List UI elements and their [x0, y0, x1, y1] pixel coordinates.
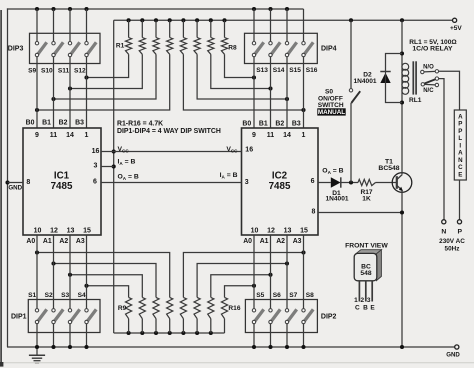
- svg-text:230V AC: 230V AC: [439, 238, 465, 245]
- resistor R9 (4.7K) with leads: [87, 286, 132, 333]
- svg-text:S10: S10: [41, 68, 53, 75]
- switch S9 (DIP3): [35, 42, 46, 57]
- svg-text:3: 3: [93, 163, 97, 170]
- terminal P (230V AC): [457, 220, 461, 224]
- svg-text:SWITCH: SWITCH: [318, 102, 344, 109]
- resistor R12 (4.7K) with leads: [37, 253, 173, 334]
- svg-text:B0: B0: [242, 121, 251, 128]
- resistor R15 (4.7K) with leads: [208, 275, 271, 333]
- svg-text:14: 14: [283, 132, 291, 139]
- svg-text:MANUAL: MANUAL: [318, 109, 345, 116]
- ground symbol (earth, bottom left): [29, 347, 45, 363]
- resistor R10 (4.7K) with leads: [70, 275, 145, 333]
- relay N/O contact: [421, 70, 439, 74]
- wire: IC1 pin3 IA=B tie to +5V: [101, 166, 114, 168]
- svg-text:IC2: IC2: [272, 171, 288, 182]
- svg-text:6: 6: [311, 178, 315, 185]
- switch S0 lever: [351, 91, 360, 103]
- svg-text:A: A: [458, 113, 463, 120]
- svg-text:2: 2: [360, 297, 364, 304]
- svg-text:15: 15: [300, 228, 308, 235]
- wire: IC1 A1 to S2: [53, 235, 55, 309]
- resistor R2 (4.7K) with leads: [70, 20, 145, 88]
- svg-text:7485: 7485: [269, 181, 291, 192]
- svg-text:E: E: [370, 305, 375, 312]
- switch S16 (DIP4): [302, 42, 313, 57]
- junction: R12 to IC1 A0 wire: [35, 250, 39, 254]
- svg-text:B: B: [363, 305, 368, 312]
- junction: S0 branch on +5V rail: [349, 18, 353, 22]
- svg-text:E: E: [458, 171, 462, 178]
- wire: IC2 pin6 output to D1: [318, 182, 331, 184]
- wire: GND bus top rail: [7, 8, 304, 10]
- wire: +5V vertical feed to Vcc and bottom resistor bus: [113, 20, 115, 333]
- wire: appliance to P terminal: [459, 180, 461, 220]
- junction: R3 top to +5V rail: [154, 18, 158, 22]
- svg-text:R9: R9: [118, 305, 127, 312]
- resistor R7 (4.7K) with leads: [208, 20, 271, 88]
- wire: S7 to GND rail: [286, 324, 288, 347]
- pin names C B E (package): [355, 305, 375, 312]
- relay armature: [423, 79, 435, 84]
- wire: Vcc line IC1 pin16 to IC2 pin16: [101, 151, 242, 153]
- svg-text:S3: S3: [61, 292, 69, 299]
- svg-text:DIP1-DIP4 = 4 WAY DIP SWITCH: DIP1-DIP4 = 4 WAY DIP SWITCH: [117, 128, 221, 135]
- svg-text:S9: S9: [28, 68, 36, 75]
- svg-text:S5: S5: [256, 292, 264, 299]
- svg-text:A3: A3: [76, 238, 85, 245]
- op IC2 7485 (box): [242, 128, 319, 235]
- resistor R5 (4.7K) with leads: [180, 20, 303, 110]
- wire: IC1 A3 to S4: [86, 235, 88, 309]
- switch S10 (DIP3): [52, 42, 63, 57]
- svg-text:9: 9: [35, 132, 39, 139]
- junction: R6 top to +5V rail: [195, 18, 199, 22]
- svg-text:B0: B0: [26, 120, 35, 127]
- svg-text:S15: S15: [289, 67, 301, 74]
- junction: DIP3 S12 to GND rail: [84, 7, 88, 11]
- svg-text:6: 6: [93, 179, 97, 186]
- svg-text:C: C: [458, 164, 463, 171]
- junction: S6 at GND rail: [268, 345, 272, 349]
- DIP switch block DIP4 (box): [245, 33, 318, 63]
- wire: cascade OA=B IC1 pin6 to IC2 pin3: [101, 182, 242, 184]
- svg-text:3: 3: [367, 297, 371, 304]
- svg-text:P: P: [458, 121, 462, 128]
- wire: S13 to IC2 B0: [253, 57, 255, 128]
- svg-text:50Hz: 50Hz: [445, 245, 460, 252]
- switch S4 (DIP1): [85, 309, 96, 324]
- label MANUAL (S0): [317, 108, 345, 116]
- svg-text:1N4001: 1N4001: [353, 78, 376, 85]
- junction: R15 bottom to +5V bus: [209, 331, 213, 335]
- switch S12 (DIP3): [85, 42, 96, 57]
- wire: T1 emitter down to GND rail: [401, 191, 403, 347]
- switch S15 (DIP4): [285, 42, 296, 57]
- wire: S8 to GND rail: [303, 324, 305, 347]
- svg-text:1: 1: [302, 132, 306, 139]
- svg-text:R1-R16 = 4.7K: R1-R16 = 4.7K: [117, 120, 163, 127]
- svg-text:10: 10: [34, 228, 42, 235]
- svg-text:A3: A3: [293, 238, 302, 245]
- op IC1 7485 (box): [23, 128, 101, 235]
- svg-text:R8: R8: [228, 45, 237, 52]
- wire: S10 to IC1 B1: [53, 57, 55, 128]
- svg-text:S13: S13: [256, 67, 268, 74]
- junction: DIP4 S13 to GND rail: [252, 7, 256, 11]
- wire: +5V rail (top): [114, 19, 455, 21]
- wire: S0 to output line: [350, 103, 352, 183]
- wire: S11 top (GND rail to switch): [69, 9, 71, 42]
- pin numbers 1 2 3 (package): [354, 297, 371, 304]
- svg-text:P: P: [458, 228, 463, 235]
- appliance box: [454, 110, 466, 180]
- svg-text:8: 8: [26, 179, 30, 186]
- junction: S4 at GND rail: [84, 345, 88, 349]
- svg-text:S11: S11: [58, 68, 70, 75]
- svg-text:L: L: [458, 135, 462, 142]
- scan edge bottom: [0, 362, 474, 364]
- wire: S4 to GND rail: [86, 324, 88, 347]
- svg-text:DIP4: DIP4: [321, 45, 337, 52]
- relay N/C contact: [421, 83, 439, 87]
- switch S7 (DIP2): [285, 309, 296, 324]
- wire: +5V bottom resistor bus: [114, 332, 225, 334]
- wire: S15 to IC2 B2: [286, 57, 288, 128]
- junction: +5V feed at IA=B line: [112, 164, 116, 168]
- junction: R16 to IC2 A0 wire: [252, 284, 256, 288]
- wire: S12 top (GND rail to switch): [86, 9, 88, 42]
- relay RL1 core: [413, 61, 416, 94]
- svg-text:A0: A0: [26, 238, 35, 245]
- junction: R8 to S13 wire: [252, 75, 256, 79]
- junction: S1 at GND rail: [35, 345, 39, 349]
- svg-text:S6: S6: [273, 292, 281, 299]
- svg-text:A2: A2: [59, 238, 68, 245]
- wire: IC2 A1 to S6: [270, 235, 272, 309]
- switch S6 (DIP2): [269, 309, 280, 324]
- svg-text:DIP3: DIP3: [8, 45, 24, 52]
- svg-text:S1: S1: [28, 292, 36, 299]
- junction: R9 to IC1 A3 wire: [84, 284, 88, 288]
- svg-text:GND: GND: [8, 184, 22, 191]
- DIP switch block DIP2 (box): [245, 300, 317, 333]
- diode D1 1N4001: [331, 177, 341, 187]
- svg-text:1K: 1K: [362, 195, 371, 202]
- svg-text:15: 15: [83, 228, 91, 235]
- svg-text:11: 11: [267, 132, 275, 139]
- svg-text:13: 13: [67, 228, 75, 235]
- wire: D2 branch: [386, 54, 403, 72]
- svg-text:9: 9: [252, 132, 256, 139]
- svg-text:N/C: N/C: [423, 88, 434, 94]
- wire: S14 to IC2 B1: [270, 57, 272, 128]
- svg-text:C: C: [355, 305, 360, 312]
- junction: S0 to output line: [349, 180, 353, 184]
- svg-text:16: 16: [92, 148, 100, 155]
- junction: R1 to S12 wire: [84, 75, 88, 79]
- junction: S3 at GND rail: [68, 345, 72, 349]
- svg-text:7485: 7485: [51, 181, 73, 192]
- wire: relay pole to N terminal: [439, 79, 444, 220]
- junction: S8 at GND rail: [301, 345, 305, 349]
- wire: S14 top (GND rail to switch): [270, 9, 272, 42]
- svg-text:S8: S8: [306, 292, 314, 299]
- transistor T1 BC548: [392, 173, 412, 193]
- wire: S3 to GND rail: [69, 324, 71, 347]
- DIP switch block DIP3 (box): [30, 33, 101, 63]
- wire: +5V rail to relay/D2: [401, 20, 403, 53]
- switch S13 (DIP4): [252, 42, 263, 57]
- svg-text:1: 1: [354, 297, 358, 304]
- wire: S5 to GND rail: [253, 324, 255, 347]
- svg-text:FRONT VIEW: FRONT VIEW: [345, 242, 388, 249]
- svg-text:I: I: [459, 142, 461, 149]
- resistor R8 (4.7K) with leads: [221, 20, 254, 77]
- svg-text:RL1: RL1: [409, 97, 422, 104]
- svg-text:DIP2: DIP2: [321, 313, 337, 320]
- junction: R11 bottom to +5V bus: [154, 331, 158, 335]
- svg-text:A0: A0: [243, 238, 252, 245]
- wire: GND bus left vertical: [7, 8, 9, 347]
- wire: R17 to T1 base: [376, 182, 397, 184]
- BC548 leg 2 (B): [365, 281, 367, 302]
- svg-text:R1: R1: [116, 42, 125, 49]
- wire: S12 to IC1 B3: [86, 57, 88, 128]
- junction: R10 to IC1 A2 wire: [68, 273, 72, 277]
- wire: IC2 pin8 to emitter: [318, 212, 402, 214]
- svg-text:P: P: [458, 128, 462, 135]
- wire: S11 to IC1 B2: [69, 57, 71, 128]
- diode D2 1N4001 (flyback): [380, 72, 390, 84]
- svg-text:10: 10: [251, 228, 259, 235]
- junction: R4 to S9 wire: [35, 108, 39, 112]
- junction: R7 to S14 wire: [268, 86, 272, 90]
- svg-text:12: 12: [267, 228, 275, 235]
- junction: S5 at GND rail: [252, 345, 256, 349]
- junction: relay branch on +5V rail: [400, 18, 404, 22]
- resistor R6 (4.7K) with leads: [194, 20, 287, 99]
- svg-text:OA = B: OA = B: [118, 174, 139, 181]
- svg-text:B3: B3: [292, 121, 301, 128]
- svg-text:B2: B2: [59, 120, 68, 127]
- svg-text:A1: A1: [260, 238, 269, 245]
- wire: S6 to GND rail: [270, 324, 272, 347]
- svg-text:N/O: N/O: [423, 64, 434, 70]
- junction: R14 to IC2 A2 wire: [285, 261, 289, 265]
- relay RL1 coil: [402, 63, 409, 94]
- svg-text:B3: B3: [75, 120, 84, 127]
- resistor R11 (4.7K) with leads: [54, 264, 160, 334]
- junction: DIP3 S11 to GND rail: [68, 7, 72, 11]
- switch S11 (DIP3): [68, 42, 79, 57]
- wire: S13 top (GND rail to switch): [253, 9, 255, 42]
- resistor R1 (4.7K) with leads: [87, 20, 132, 77]
- junction: R5 top to +5V rail: [181, 18, 185, 22]
- junction: R1 top to +5V rail: [127, 18, 131, 22]
- wire: S15 top (GND rail to switch): [286, 9, 288, 42]
- svg-text:16: 16: [245, 147, 253, 154]
- ground terminal GND (bottom right): [455, 345, 459, 349]
- junction: emitter at GND rail: [400, 345, 404, 349]
- wire: S2 to GND rail: [53, 324, 55, 347]
- resistor R4 (4.7K) with leads: [37, 20, 173, 110]
- junction: R15 to IC2 A1 wire: [268, 273, 272, 277]
- svg-text:B1: B1: [259, 121, 268, 128]
- svg-text:S7: S7: [289, 292, 297, 299]
- svg-text:3: 3: [245, 179, 249, 186]
- wire: S9 to IC1 B0: [36, 57, 38, 128]
- terminal N (230V AC): [442, 220, 446, 224]
- junction: R7 top to +5V rail: [209, 18, 213, 22]
- junction: R13 to IC2 A3 wire: [301, 250, 305, 254]
- scan edge left: [0, 10, 2, 366]
- svg-text:N: N: [458, 157, 463, 164]
- +5V terminal: [453, 18, 457, 22]
- svg-text:8: 8: [312, 209, 316, 216]
- wire: GND bus bottom rail: [7, 346, 457, 348]
- wire: GND to IC1 pin 8: [8, 182, 24, 184]
- wire: S16 to IC2 B3: [303, 57, 305, 128]
- svg-text:N: N: [441, 228, 446, 235]
- switch S2 (DIP1): [52, 309, 63, 324]
- svg-text:+5V: +5V: [450, 25, 462, 32]
- junction: DIP3 S9 to GND rail: [35, 7, 39, 11]
- wire: S16 top (GND rail corner to switch): [303, 9, 305, 42]
- wire: IC2 A0 to S5: [253, 235, 255, 309]
- svg-text:548: 548: [360, 270, 371, 277]
- switch S8 (DIP2): [302, 309, 313, 324]
- wire: S9 top (GND rail to switch): [36, 9, 38, 42]
- switch S3 (DIP1): [68, 309, 79, 324]
- switch S1 (DIP1): [35, 309, 46, 324]
- junction: DIP4 S15 to GND rail: [285, 7, 289, 11]
- svg-text:14: 14: [66, 132, 74, 139]
- svg-text:A1: A1: [43, 238, 52, 245]
- wire: S1 to GND rail: [36, 324, 38, 347]
- junction: R5 to S16 wire: [301, 108, 305, 112]
- BC548 leg 1 (C): [358, 281, 360, 302]
- svg-text:S16: S16: [306, 67, 318, 74]
- relay pole terminal: [435, 77, 438, 80]
- resistor R13 (4.7K) with leads: [180, 253, 303, 334]
- wire: IC2 A2 to S7: [286, 235, 288, 309]
- svg-text:13: 13: [284, 228, 292, 235]
- svg-text:B2: B2: [275, 121, 284, 128]
- BC548 leg 3 (E): [371, 281, 373, 302]
- svg-text:A2: A2: [276, 238, 285, 245]
- svg-text:IC1: IC1: [54, 171, 70, 182]
- junction: R2 to S11 wire: [68, 86, 72, 90]
- resistor R14 (4.7K) with leads: [194, 264, 287, 334]
- switch S5 (DIP2): [252, 309, 263, 324]
- wire: IC1 A0 to S1: [36, 235, 38, 309]
- wire: IC1 A2 to S3: [69, 235, 71, 309]
- wire: S10 top (GND rail to switch): [53, 9, 55, 42]
- svg-text:12: 12: [50, 228, 58, 235]
- svg-text:S14: S14: [273, 67, 285, 74]
- wire: +5V to S0: [350, 20, 352, 88]
- junction: R10 bottom to +5V bus: [140, 331, 144, 335]
- wire: D1 to R17: [341, 182, 358, 184]
- junction: DIP3 S10 to GND rail: [51, 7, 55, 11]
- svg-text:11: 11: [50, 132, 58, 139]
- junction: R9 bottom to +5V bus: [127, 331, 131, 335]
- svg-text:1: 1: [85, 132, 89, 139]
- DIP switch block DIP1 (box): [28, 300, 100, 333]
- wire: T1 collector to relay: [401, 103, 403, 175]
- scan corner mark: [0, 362, 3, 367]
- junction: relay/D2 bottom: [400, 100, 404, 104]
- svg-text:1C/O RELAY: 1C/O RELAY: [412, 46, 453, 53]
- svg-text:DIP1: DIP1: [11, 313, 27, 320]
- junction: DIP4 S14 to GND rail: [268, 7, 272, 11]
- junction: R8 top to +5V rail: [222, 18, 226, 22]
- junction: +5V feed at Vcc line: [112, 149, 116, 153]
- switch S14 (DIP4): [269, 42, 280, 57]
- BC548 package front view: [354, 250, 381, 281]
- svg-text:R16: R16: [228, 305, 240, 312]
- svg-text:S2: S2: [45, 292, 53, 299]
- wire: IC2 A3 to S8: [303, 235, 305, 309]
- junction: emitter / IC2 pin8: [400, 210, 404, 214]
- svg-text:OA = B: OA = B: [322, 168, 343, 175]
- svg-text:B1: B1: [42, 120, 51, 127]
- junction: R11 to IC1 A1 wire: [51, 261, 55, 265]
- junction: GND to IC1 pin 8: [5, 180, 9, 184]
- junction: R4 top to +5V rail: [168, 18, 172, 22]
- junction: R6 to S15 wire: [285, 97, 289, 101]
- junction: R14 bottom to +5V bus: [195, 331, 199, 335]
- junction: S2 at GND rail: [51, 345, 55, 349]
- junction: R3 to S10 wire: [51, 97, 55, 101]
- junction: S7 at GND rail: [285, 345, 289, 349]
- resistor R16 (4.7K) with leads: [221, 286, 254, 333]
- svg-text:S12: S12: [74, 68, 86, 75]
- junction: relay/D2 top: [400, 51, 404, 55]
- svg-text:A: A: [458, 150, 463, 157]
- svg-text:S4: S4: [78, 292, 86, 299]
- resistor R17 (1K): [358, 179, 376, 185]
- svg-text:BC548: BC548: [378, 165, 399, 172]
- svg-text:GND: GND: [446, 351, 460, 358]
- svg-text:1N4001: 1N4001: [325, 195, 348, 202]
- junction: R2 top to +5V rail: [140, 18, 144, 22]
- wire: relay main vertical (through coil): [401, 54, 403, 103]
- resistor R3 (4.7K) with leads: [54, 20, 160, 99]
- junction: R13 bottom to +5V bus: [181, 331, 185, 335]
- junction: R12 bottom to +5V bus: [168, 331, 172, 335]
- switch S0 terminal (top): [349, 89, 352, 92]
- wire: N/O to appliance: [439, 71, 460, 110]
